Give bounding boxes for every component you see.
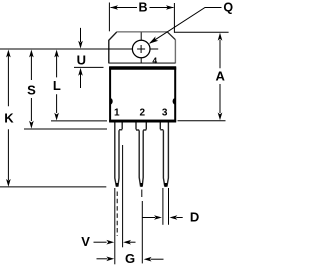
hole centerline vertical <box>140 32 142 63</box>
svg-text:L: L <box>53 78 61 93</box>
svg-text:A: A <box>216 68 226 83</box>
dimension U lower arrow <box>80 74 82 88</box>
svg-text:4: 4 <box>152 55 157 65</box>
dimension D line right part <box>176 217 182 219</box>
svg-text:2: 2 <box>140 108 146 119</box>
B left arrowhead <box>110 5 118 10</box>
dimension U upper arrow <box>80 28 82 42</box>
lead 2 right extension line <box>141 201 143 263</box>
lead 1 <box>115 123 122 187</box>
lead 1 tip <box>116 183 118 187</box>
svg-text:D: D <box>190 210 199 225</box>
lead 3 collar step <box>160 129 163 131</box>
lead 3 right extension line <box>168 188 170 225</box>
dimension S bottom reference line <box>24 128 107 130</box>
right side nub <box>173 98 175 104</box>
lead 1 collar right extension line <box>122 145 124 247</box>
dimension A line <box>219 40 221 113</box>
lead 2 <box>136 123 146 187</box>
dimension S line <box>30 56 32 121</box>
lead 3 <box>160 123 168 187</box>
dimension K line <box>7 56 9 181</box>
dimension B line <box>111 7 174 9</box>
svg-text:S: S <box>27 82 36 97</box>
dimension L line <box>56 56 58 113</box>
dimension A bottom reference line <box>178 120 226 122</box>
svg-text:1: 1 <box>114 108 120 119</box>
B right arrowhead <box>166 5 174 10</box>
lead 1 left edge extension line <box>114 188 116 264</box>
dimension B right extension <box>173 3 175 33</box>
svg-text:3: 3 <box>162 108 168 119</box>
dimension U lower reference line <box>74 66 104 68</box>
dimension G left arrow <box>97 258 108 260</box>
Q leader line <box>150 8 222 44</box>
dimension L bottom reference line <box>51 120 107 122</box>
tab (metal mounting tab with chamfered corners) <box>109 32 176 64</box>
body bottom thick edge <box>109 120 176 123</box>
svg-text:G: G <box>125 251 135 266</box>
A bottom arrowhead <box>218 113 223 121</box>
dimension K bottom reference line (lead tip level) <box>0 186 106 188</box>
svg-text:V: V <box>81 234 90 249</box>
body top thick edge <box>109 66 176 70</box>
hole centerline horizontal right <box>150 48 158 50</box>
svg-text:U: U <box>77 53 86 68</box>
svg-text:B: B <box>138 1 147 15</box>
hole center cross <box>137 45 145 53</box>
lead 2 tip <box>140 183 143 187</box>
lead 3 tip <box>164 183 167 187</box>
lead 3 left extension line <box>162 188 164 225</box>
lead 1 dashed centerline <box>116 192 118 237</box>
mounting hole <box>132 40 150 58</box>
reference line at hole center level <box>0 48 133 50</box>
dimension D line left part <box>142 217 155 219</box>
dimension G right arrow <box>151 258 164 260</box>
dimension A top reference line <box>174 31 228 33</box>
Q arrowhead <box>149 36 158 43</box>
lead 1 collar step <box>119 129 122 131</box>
svg-text:Q: Q <box>223 0 233 14</box>
lead 2 collar steps <box>136 129 146 131</box>
A top arrowhead <box>218 33 223 41</box>
lead 2 dashed centerline <box>141 190 143 198</box>
body (molded plastic body) <box>110 68 175 120</box>
dimension V right arrow <box>129 241 135 243</box>
dimension V left arrow <box>94 241 107 243</box>
dimension B left extension <box>108 3 110 32</box>
svg-text:K: K <box>4 111 14 126</box>
left side nub <box>110 98 112 104</box>
